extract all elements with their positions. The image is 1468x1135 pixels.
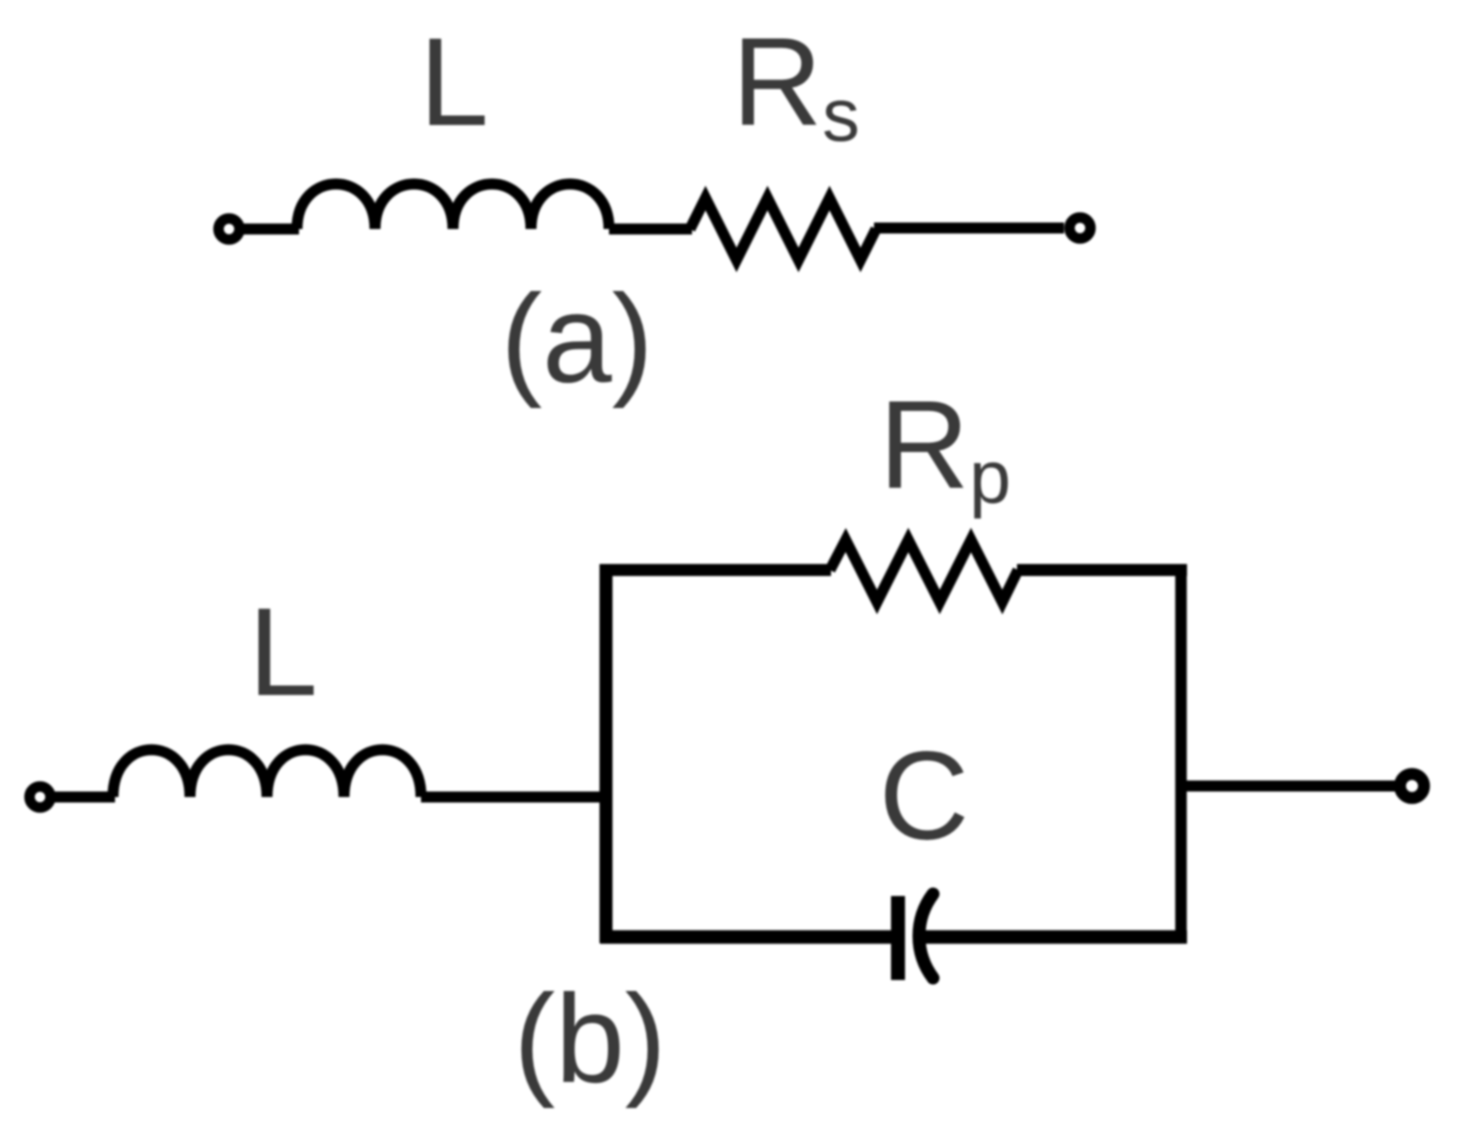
svg-text:L: L	[248, 583, 318, 722]
svg-text:(b): (b)	[514, 970, 667, 1109]
svg-text:Rp: Rp	[879, 376, 1011, 519]
svg-text:Rs: Rs	[732, 13, 860, 157]
svg-text:(a): (a)	[501, 270, 654, 409]
svg-text:C: C	[879, 727, 969, 866]
svg-text:L: L	[419, 13, 489, 152]
